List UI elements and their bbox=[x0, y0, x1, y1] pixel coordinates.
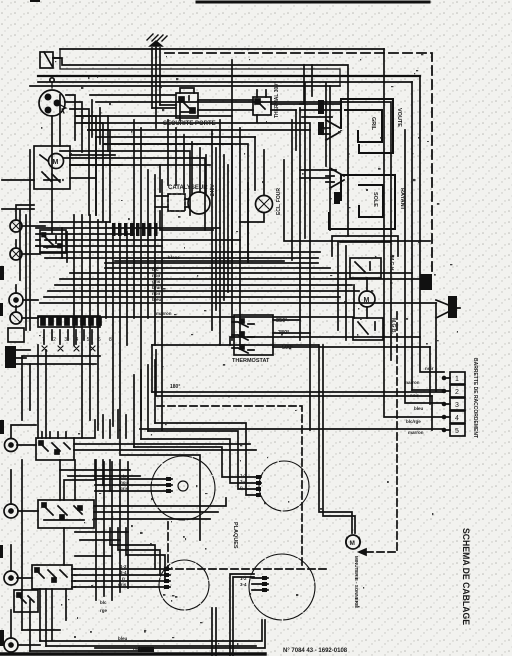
svg-text:500°: 500° bbox=[282, 345, 293, 351]
reg cross connectors bbox=[60, 470, 140, 556]
svg-text:bleu: bleu bbox=[118, 636, 128, 641]
reg vertical bundle bbox=[96, 460, 128, 600]
svg-text:PLAQUES: PLAQUES bbox=[232, 522, 238, 549]
wire cascade extra c bbox=[76, 116, 310, 130]
svg-text:n: n bbox=[240, 485, 243, 490]
left lamp wires bbox=[16, 205, 45, 318]
svg-text:380°: 380° bbox=[278, 330, 289, 336]
fork contact sole bbox=[326, 168, 344, 188]
wire cascade 3 bbox=[70, 109, 96, 215]
terminal 1 bbox=[450, 372, 465, 384]
wire staircase to plate2 bbox=[134, 423, 261, 495]
dashed plate border bbox=[168, 522, 330, 569]
wire cascade extra e bbox=[96, 137, 248, 262]
wire cascade long a bbox=[75, 123, 310, 180]
dashed arrowhead bbox=[359, 549, 366, 555]
wires into reg1 from top bbox=[74, 410, 126, 438]
bottom wire 646 bbox=[46, 645, 256, 647]
regulator box 2 bbox=[38, 500, 94, 528]
oven lamp ECL.FOUR bbox=[240, 150, 273, 222]
element box SOLE bbox=[329, 175, 395, 229]
wire bus mid 291 bbox=[48, 290, 359, 292]
catalyseur element bbox=[155, 192, 210, 214]
svg-text:brun: brun bbox=[152, 285, 162, 290]
plate1 pins bbox=[95, 479, 172, 491]
scan edge mark left 5 bbox=[0, 630, 4, 646]
plate 1 hub bbox=[178, 481, 188, 491]
reg3 out right bbox=[72, 569, 75, 587]
wire cascade 1 bbox=[52, 95, 75, 233]
long verticals element column bbox=[305, 83, 326, 238]
wire ground to secu bbox=[152, 105, 176, 108]
scan speckles bbox=[39, 48, 458, 645]
svg-text:BARRETTE DE RACCORDEMENT: BARRETTE DE RACCORDEMENT bbox=[472, 358, 478, 438]
wire center vert c bbox=[284, 86, 430, 430]
terminal stubs bbox=[412, 303, 450, 430]
bottom thick line bbox=[0, 652, 265, 656]
svg-text:CATALYSEUR: CATALYSEUR bbox=[168, 185, 208, 191]
wire y392 bbox=[152, 391, 444, 393]
pin blobs gril 2 bbox=[318, 122, 324, 135]
fork contact gril bbox=[322, 120, 340, 140]
svg-text:M.G.B.: M.G.B. bbox=[390, 318, 396, 334]
bottom left box bbox=[14, 590, 38, 612]
component M.G.H. bbox=[350, 258, 381, 278]
svg-text:marron: marron bbox=[156, 311, 172, 316]
bottom thick mark bbox=[138, 647, 154, 652]
pin blobs gril bbox=[318, 100, 324, 114]
svg-text:noir: noir bbox=[410, 393, 419, 398]
fuse holder top-left bbox=[40, 52, 60, 68]
left margin wires bbox=[2, 150, 34, 330]
lamp L4 bbox=[10, 312, 22, 324]
wire bus mid 317 bbox=[38, 316, 353, 318]
right vertical to terminal 1 bbox=[420, 76, 444, 372]
svg-text:1-2: 1-2 bbox=[120, 564, 127, 569]
svg-text:blc: blc bbox=[100, 600, 107, 605]
wire center vert b bbox=[232, 60, 255, 345]
regulator box 3 bbox=[32, 565, 72, 589]
svg-text:ECL. FOUR: ECL. FOUR bbox=[276, 188, 282, 215]
svg-text:1-2: 1-2 bbox=[240, 473, 247, 478]
right vertical to terminal 3 bbox=[180, 102, 444, 403]
thermostat box bbox=[232, 315, 273, 355]
terminal pins lower bbox=[44, 330, 92, 344]
svg-text:bleu: bleu bbox=[152, 297, 162, 302]
wire verticals under dash bbox=[296, 65, 312, 150]
scan edge mark left 4 bbox=[0, 545, 3, 558]
plate4 pins bbox=[252, 578, 268, 590]
wire bus mid 279 bbox=[60, 278, 430, 280]
extra verticals upper mesh bbox=[92, 100, 108, 151]
svg-text:GRIL: GRIL bbox=[370, 117, 376, 131]
left motor box bbox=[34, 146, 70, 189]
svg-text:rge: rge bbox=[100, 608, 108, 613]
right vertical to terminal 4 bbox=[384, 49, 444, 417]
svg-text:gris: gris bbox=[152, 279, 161, 284]
wire bundle center verticals bbox=[212, 120, 228, 345]
svg-text:noir: noir bbox=[152, 273, 161, 278]
element box GRIL bbox=[341, 99, 393, 153]
wire bus mid 297 bbox=[44, 296, 340, 298]
pin cross marks bbox=[42, 346, 95, 351]
left edge connector bbox=[5, 346, 30, 368]
fan assembly frame bbox=[332, 236, 398, 256]
wire cascade extra d bbox=[60, 151, 205, 230]
dashed wire to timer bbox=[366, 312, 397, 552]
fan motor M bbox=[359, 278, 375, 318]
selector terminal strip bbox=[38, 316, 101, 327]
connector block bbox=[420, 274, 432, 290]
regulator box 1 bbox=[36, 432, 74, 460]
lamp L3 bbox=[9, 293, 23, 307]
wire long verticals bottom bbox=[22, 460, 75, 640]
svg-text:marron: marron bbox=[404, 380, 420, 385]
wire bus top F bbox=[30, 85, 340, 87]
plate1 pin squares bbox=[166, 477, 171, 493]
top frame line bbox=[197, 1, 429, 4]
svg-text:SECURITE PORTE: SECURITE PORTE bbox=[163, 121, 216, 127]
left box bbox=[8, 328, 24, 342]
wire bundle selector verticals bbox=[62, 120, 162, 438]
svg-text:7 2 3 4 5 6 8: 7 2 3 4 5 6 8 bbox=[42, 337, 115, 343]
wire bus top E bbox=[38, 81, 412, 83]
bottom lamp wires bbox=[11, 425, 40, 645]
pin blob sole bbox=[334, 192, 340, 204]
svg-text:240V: 240V bbox=[210, 184, 216, 196]
svg-text:noir: noir bbox=[425, 366, 434, 371]
wire double to timer bbox=[319, 345, 355, 533]
wires from motor box bbox=[70, 155, 122, 178]
svg-text:VOUTE: VOUTE bbox=[396, 108, 402, 127]
wire bus mid 285 bbox=[55, 284, 352, 286]
wire secu to thermal bbox=[198, 100, 304, 110]
wire bus mid 273 bbox=[70, 272, 412, 274]
wires into gril bbox=[300, 104, 340, 117]
svg-text:4: 4 bbox=[455, 415, 459, 422]
wire catalyseur loop bbox=[160, 165, 213, 230]
reg2 nest bbox=[110, 528, 165, 581]
ground wires down bbox=[152, 48, 160, 128]
contact bank bbox=[112, 223, 158, 236]
component M.G.B. bbox=[353, 318, 383, 340]
wire y396 bbox=[152, 345, 432, 396]
scan edge mark top bbox=[30, 0, 40, 2]
staircase left risers bbox=[134, 360, 155, 447]
lamp B3 bbox=[4, 571, 18, 585]
svg-text:180°: 180° bbox=[170, 384, 180, 390]
bottom wire 641 bbox=[40, 620, 262, 641]
svg-text:350°: 350° bbox=[276, 318, 287, 324]
plate circle 2 bbox=[259, 461, 309, 511]
wire bundle selector horizontals bbox=[36, 222, 330, 268]
svg-text:noir: noir bbox=[152, 291, 161, 296]
svg-text:RAYANT: RAYANT bbox=[399, 188, 405, 211]
wire thick plate4 down bbox=[230, 574, 254, 656]
plate circle 3 bbox=[159, 560, 209, 610]
svg-text:5: 5 bbox=[455, 428, 459, 435]
wire bus mid 345 bbox=[152, 344, 318, 346]
wire cascade 2 bbox=[60, 95, 82, 152]
scan edge mark left 2 bbox=[0, 303, 3, 316]
svg-text:bleu: bleu bbox=[414, 406, 424, 411]
wires into sole bbox=[300, 170, 336, 178]
lamp B1 bbox=[5, 439, 18, 452]
svg-text:n: n bbox=[122, 576, 125, 581]
bus labels bbox=[152, 255, 180, 316]
lamp L2 bbox=[10, 248, 22, 260]
wire cascade 4 bbox=[82, 123, 110, 222]
plate3 pin squares bbox=[164, 567, 169, 589]
svg-text:3-4: 3-4 bbox=[120, 570, 127, 575]
svg-text:2: 2 bbox=[455, 389, 459, 396]
svg-text:3: 3 bbox=[455, 402, 459, 409]
wire cascade long b bbox=[90, 95, 180, 120]
plate circle 1 bbox=[151, 456, 215, 520]
scan edge mark left 3 bbox=[0, 420, 4, 434]
thermal switch 300 bbox=[253, 90, 271, 122]
thermostat wires right bbox=[273, 320, 430, 347]
terminal 3 bbox=[450, 398, 465, 410]
svg-text:M: M bbox=[350, 540, 355, 547]
svg-text:3-4: 3-4 bbox=[240, 582, 247, 587]
svg-text:SCHEMA DE CABLAGE: SCHEMA DE CABLAGE bbox=[460, 528, 471, 625]
svg-text:SOLE: SOLE bbox=[372, 192, 378, 207]
bottom-left corner wires bbox=[22, 600, 60, 651]
wire bus top C bbox=[60, 49, 340, 86]
bottom labels bbox=[100, 600, 142, 651]
wire pair below plate3 bbox=[212, 608, 216, 656]
timer motor circle bbox=[346, 535, 361, 549]
svg-text:3-4: 3-4 bbox=[240, 479, 247, 484]
wire verticals above catalyseur bbox=[168, 120, 206, 194]
reg2 out right bbox=[64, 480, 226, 519]
dashed wire y406 bbox=[157, 406, 302, 569]
wire center vert d bbox=[338, 242, 354, 340]
svg-text:noir: noir bbox=[133, 646, 142, 651]
svg-text:1: 1 bbox=[455, 376, 459, 383]
lamp L1 bbox=[10, 220, 22, 232]
terminal wire labels bbox=[404, 366, 434, 435]
plate circle 4 bbox=[249, 554, 315, 620]
svg-text:MINUTERIE - SONNERIE: MINUTERIE - SONNERIE bbox=[354, 556, 359, 608]
scan edge mark left 1 bbox=[0, 266, 4, 280]
connector arrow bbox=[436, 296, 460, 318]
socket circle with pins bbox=[39, 78, 66, 116]
wire bus top B bbox=[53, 58, 348, 236]
svg-text:blc/rge: blc/rge bbox=[406, 419, 421, 424]
terminal 2 bbox=[450, 385, 465, 397]
selector to reg wires bbox=[22, 345, 100, 438]
wire y429 long bbox=[140, 428, 444, 430]
wire bus mid 337 bbox=[230, 337, 420, 345]
svg-text:M.G.H.: M.G.H. bbox=[388, 256, 394, 272]
wire bus mid 303 bbox=[40, 302, 436, 304]
svg-text:N° 7084 43 - 1692-0108: N° 7084 43 - 1692-0108 bbox=[283, 648, 348, 654]
bottom wire 651 bbox=[30, 650, 150, 652]
terminal 5 bbox=[450, 424, 465, 436]
terminal dots bbox=[442, 376, 447, 433]
plate4 pin squares bbox=[262, 576, 267, 592]
selector switch upper bbox=[36, 230, 66, 253]
lamp B4 bbox=[4, 638, 18, 652]
dashed enclosure top bbox=[165, 53, 432, 272]
reg3 down wires bbox=[40, 589, 46, 646]
svg-text:marron: marron bbox=[408, 430, 424, 435]
wire bend down a bbox=[120, 430, 200, 540]
wire bus top D bbox=[38, 75, 420, 77]
wire bus top A bbox=[60, 48, 384, 50]
plate2 pin squares bbox=[256, 475, 261, 497]
right vertical to terminal 2 bbox=[411, 82, 413, 390]
door switch SECURITE PORTE bbox=[176, 88, 198, 118]
svg-text:M: M bbox=[53, 159, 59, 166]
svg-text:THERMOSTAT: THERMOSTAT bbox=[232, 358, 270, 364]
ground symbol bbox=[147, 34, 167, 58]
bottom second line bbox=[95, 620, 265, 648]
plate pin labels bbox=[118, 473, 247, 587]
lamp B2 bbox=[4, 504, 18, 518]
reg1 out right bbox=[74, 444, 256, 491]
terminal 4 bbox=[450, 411, 465, 423]
plate3 pins bbox=[75, 569, 170, 587]
wire cascade 5 bbox=[96, 137, 255, 258]
wire bus mid 261 bbox=[115, 260, 284, 262]
